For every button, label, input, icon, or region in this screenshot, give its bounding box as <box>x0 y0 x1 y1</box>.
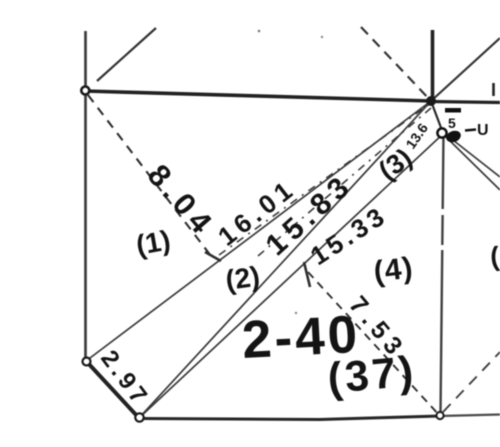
wire: dashed diagonal R1 to right edge <box>443 352 500 412</box>
scan speck <box>258 30 261 33</box>
scan gap on right vertical <box>440 209 444 215</box>
wire: lot line L2 to N2 <box>139 133 444 418</box>
wire: thick short edge L1 to L2 <box>87 362 138 417</box>
wire: dashed dimension line 7.53 to R1 <box>308 272 440 416</box>
wire: tick at end of 7.53 line <box>304 262 310 287</box>
label: underscore mark near right edge <box>465 130 476 131</box>
wire: diagonal N1 to top right edge <box>431 38 500 101</box>
wire: upper right vertical into N1 <box>431 30 435 101</box>
wire: horizontal N1 to right edge <box>431 102 500 103</box>
node L2: open circle <box>135 413 143 421</box>
svg-text:(5: (5 <box>489 240 500 272</box>
node R1: open circle <box>436 412 443 419</box>
wire: lot line L1 to N1 <box>86 101 431 361</box>
wire: bottom boundary line left of R1 <box>139 416 440 420</box>
scan speck <box>321 36 323 38</box>
wire: diagonal N2 to right edge upper <box>444 133 500 177</box>
wire: dashed dimension line 8.04 from A <box>88 95 211 256</box>
scan gap on right vertical <box>441 245 445 250</box>
wire: small tick above horizontal near right edge <box>492 83 495 96</box>
svg-text:(37): (37) <box>326 347 418 403</box>
label: small thick dash right of N1 <box>445 108 461 113</box>
wire: dash-dot dimension line toward N1 (16.01) <box>219 103 431 255</box>
wire: tick at end of 8.04 line <box>205 252 221 261</box>
wire: top horizontal line A to N1 <box>85 91 431 101</box>
svg-text:13.6: 13.6 <box>402 120 431 152</box>
wire: short connector N1 to N2 <box>431 101 443 133</box>
wire: dashed diagonal into N1 from upper left <box>361 27 431 101</box>
svg-text:(2): (2) <box>224 260 262 295</box>
svg-text:(1): (1) <box>134 224 173 260</box>
node A: open circle junction top left <box>81 87 89 95</box>
svg-text:5: 5 <box>448 115 456 131</box>
svg-text:(4): (4) <box>372 251 415 289</box>
wire: dash-dot dimension line 15.83 <box>258 108 431 256</box>
node N2: open circle <box>437 128 446 137</box>
node N1: filled junction dot top right <box>426 96 436 106</box>
wire: diagonal N2 to right edge lower <box>446 137 500 190</box>
wire: left vertical boundary line <box>84 31 87 361</box>
wire: bottom boundary line right of R1 <box>440 415 500 417</box>
scan speck <box>295 312 297 314</box>
wire: lot line L2 to N1 <box>139 101 431 418</box>
wire: right vertical N2 down to R1 <box>441 133 444 414</box>
wire: short diagonal from node A up-right <box>97 28 156 81</box>
svg-text:U: U <box>477 122 489 139</box>
node L1: open circle <box>83 358 91 366</box>
label: tiny filled digit 6 blob near N2 <box>445 129 463 144</box>
